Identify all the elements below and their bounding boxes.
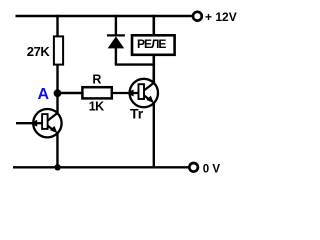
terminal 0V xyxy=(189,163,198,172)
wire node A to resistor R xyxy=(58,92,83,94)
svg-text:1K: 1K xyxy=(89,99,104,113)
wire diode to relay bottom node xyxy=(115,63,154,65)
svg-text:+ 12V: + 12V xyxy=(205,10,237,24)
wire Tr emitter to bottom rail xyxy=(153,103,155,168)
wire resistor R to Tr base xyxy=(113,92,139,94)
junction dot Q1 emitter / 0V rail xyxy=(54,164,60,170)
relay coil box xyxy=(132,35,175,55)
terminal +12V xyxy=(193,12,202,21)
resistor 27K xyxy=(54,36,63,64)
svg-text:0 V: 0 V xyxy=(203,164,221,176)
wire diode anode down xyxy=(115,48,117,65)
wire Q1 emitter to bottom rail xyxy=(56,133,58,168)
svg-text:27K: 27K xyxy=(27,44,51,59)
node A junction dot xyxy=(54,89,62,97)
resistor R 1K xyxy=(82,87,111,98)
wire top rail to relay xyxy=(153,15,156,35)
wire input to Q1 base xyxy=(16,122,42,124)
diode (flyback, pointing up) xyxy=(108,36,125,48)
diode branch wire from top rail xyxy=(115,15,117,36)
svg-text:A: A xyxy=(38,86,50,103)
svg-text:R: R xyxy=(92,73,101,87)
svg-text:Tr: Tr xyxy=(130,106,144,122)
transistor Tr (NPN) xyxy=(127,79,158,107)
wire 27K to node A and Q1 collector xyxy=(56,65,58,114)
svg-text:РЕЛЕ: РЕЛЕ xyxy=(137,37,166,51)
wire from top rail to 27K xyxy=(56,15,58,37)
wire relay to Tr collector xyxy=(153,56,156,84)
wire top rail +12V xyxy=(16,15,194,17)
diode cathode bar xyxy=(107,34,125,36)
transistor Q1 (NPN, input stage) xyxy=(30,109,61,137)
wire bottom rail 0V xyxy=(13,166,189,168)
